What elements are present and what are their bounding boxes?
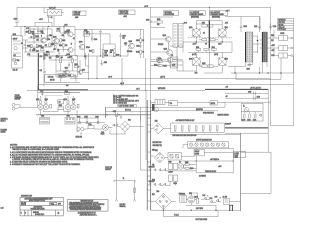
junction dot bias a [56,55,57,56]
svg-text:1K: 1K [142,40,144,42]
jack MUTE [76,127,84,138]
svg-text:R150: R150 [157,19,161,21]
connector strip pins row [188,141,229,148]
diode D153 [163,169,165,171]
svg-text:4K7: 4K7 [45,45,48,47]
capacitor C144 [253,114,257,122]
label box POWER AMP MODULE [73,11,87,19]
resistor R123 [57,29,60,32]
label box LF OUTPUT LOADING NETWK [189,11,205,19]
wire mid-stage bottom [75,30,141,59]
svg-text:47u: 47u [33,48,35,50]
svg-text:+OUT: +OUT [271,45,275,47]
svg-text:(PILOT LT): (PILOT LT) [105,167,112,169]
resistor R186 [185,167,193,170]
transistor Q124 [154,57,162,67]
terminal block TS1 [279,36,293,41]
svg-text:C1: C1 [51,17,53,19]
output transistor Q134 TO-3 [189,52,200,71]
jack J102 [12,103,20,110]
junction dot fe e [47,51,48,52]
transistor Q112 TO-3 [36,99,43,110]
svg-text:K2: K2 [179,161,181,163]
title block name [31,206,46,211]
svg-text:H.F. OUTPUT: H.F. OUTPUT [211,12,220,14]
svg-text:0.1: 0.1 [203,33,205,35]
resistor R162 [204,48,209,50]
resistor R106 [27,44,32,47]
svg-text:10K: 10K [157,24,159,26]
diode D104 [95,116,99,123]
svg-text:15,000uF: 15,000uF [225,124,231,126]
resistor R153 [208,24,213,27]
capacitor C120 [146,19,152,22]
output transistor Q136 TO-3 [218,52,228,71]
svg-text:D150-153: D150-153 [149,166,155,168]
wire top +85V supply rail [17,7,294,125]
resistor R133 [89,50,94,53]
svg-text:C160: C160 [168,161,172,163]
transistor Q106 [67,47,73,56]
svg-text:VOL: VOL [17,60,20,62]
svg-text:OUTPUT MODULE PINS: OUTPUT MODULE PINS [196,139,212,141]
resistor R167 [208,65,213,68]
wire BR1 leads [151,128,171,130]
bold rail +85 right [205,88,268,90]
svg-text:C104: C104 [49,35,53,37]
svg-text:C100: C100 [14,19,18,21]
svg-text:C108: C108 [94,39,98,41]
output heatsink bar HF dark [263,32,268,62]
diode D151 [154,169,156,171]
wire J100 to amp [22,27,28,49]
svg-text:D10: D10 [62,75,65,77]
wire harness drop x146 [145,90,147,160]
svg-text:B: B [41,36,42,38]
svg-text:Q136: Q136 [225,58,229,60]
junction dot out c [222,41,223,42]
svg-text:1.8K: 1.8K [68,57,71,59]
transistor Q104 [67,30,73,37]
svg-text:C120: C120 [146,19,150,21]
resistor R150 [157,19,162,23]
warning box body [69,202,105,211]
resistor R132 [136,50,141,54]
svg-text:MODULE: MODULE [74,14,80,16]
wire +80V rail (long) [70,77,271,79]
wire R100 drop [44,7,54,26]
svg-text:R160: R160 [196,47,199,49]
junction dot bottom rail a [163,210,164,211]
wire rail y98.2 [225,97,268,99]
svg-text:MUTE LINE: MUTE LINE [158,88,165,90]
wire mid-stage net [85,30,144,59]
wire output bars bottom wrap [228,62,267,73]
resistor R166 [202,63,207,67]
svg-text:R126: R126 [110,50,114,52]
svg-text:RED: RED [271,35,274,37]
resistor R102 [29,30,35,33]
svg-text:DRIVE: DRIVE [195,153,199,155]
wire remote line y110.8 [151,110,218,112]
svg-text:C116: C116 [40,91,43,93]
svg-text:4.7K: 4.7K [26,28,29,30]
diode LED DS2 [210,198,213,203]
svg-text:C138: C138 [257,97,261,99]
junction dot top rail bus [209,7,210,8]
resistor R143 [77,104,79,108]
wire K3 links [151,61,183,71]
title block bottom row [21,212,60,216]
note line 4 [10,156,99,161]
capacitor C109 [21,43,26,46]
svg-text:BR2: BR2 [155,150,158,152]
wire harness drop x140.5 [141,107,148,170]
svg-text:150: 150 [110,52,112,54]
junction dot fe d [37,46,38,47]
bridge rectifier BR3 main [155,191,171,209]
svg-text:Q114: Q114 [64,99,67,101]
svg-text:R122: R122 [105,51,109,53]
junction dot bias b [65,55,66,56]
wire output emitters bottom [177,66,222,73]
junction dot output node [257,40,259,42]
svg-text:C142: C142 [247,119,251,121]
svg-text:Q104: Q104 [67,30,71,32]
rectifier diamond BR2 [154,150,165,163]
diode D152 [159,169,161,171]
transistor Q117 [78,70,85,75]
fuse F100 box [88,124,94,129]
resistor R122 [102,50,108,54]
wire diode tops [80,115,98,118]
resistor R192 inline [134,188,136,192]
wire PSU mid2 [168,161,233,173]
label pilot [105,167,112,171]
svg-text:SWITCH: SWITCH [15,99,21,101]
svg-text:R172: R172 [158,59,161,61]
resistor R120 [84,30,91,36]
svg-text:GRN RED YEL: GRN RED YEL [153,145,163,147]
resistor R124 [102,54,108,57]
wire TO3 row rail [40,91,70,93]
ribbon connector board edge [173,23,183,47]
svg-text:R152: R152 [202,23,205,25]
wire AC cluster links [216,201,240,211]
svg-text:C163: C163 [173,183,177,185]
svg-text:22K: 22K [86,32,88,34]
svg-text:COM: COM [271,55,274,57]
terminal block TS3 [279,53,293,58]
svg-text:0 V: 0 V [205,43,207,45]
label box relay drive [194,149,204,156]
wire TO3 emitters [41,96,74,115]
wire right verticals to y73 [235,56,294,74]
output heatsink bar LF hatched [246,32,253,62]
svg-text:390: 390 [105,53,107,55]
connector P104 [65,116,75,124]
transistor Q120 [163,35,172,42]
svg-text:Q130: Q130 [189,27,193,29]
svg-text:5. K DENOTES RELAY CONTACTS S: 5. K DENOTES RELAY CONTACTS SHOWN IN DE-… [10,161,68,164]
svg-text:P102: P102 [41,116,44,118]
wire driver internal [151,39,183,67]
notes table box top-right [278,19,294,32]
svg-text:R166: R166 [202,63,205,65]
resistor R138 [74,64,78,68]
wire diode row 2 [147,181,176,185]
wire rail y133.2 right [225,132,268,134]
transistor Q114 TO-3 [64,99,71,110]
junction dot PSU a [196,160,197,161]
svg-text:+85 V (+42.5 V): +85 V (+42.5 V) [250,87,261,89]
capacitor C100 input [14,7,19,26]
svg-text:YEL: YEL [152,165,155,167]
svg-text:R130: R130 [136,40,140,42]
transistor Q115 TO-3 [71,99,76,110]
wire pilot drop x116.5 [116,115,118,181]
relay box K3 [171,55,178,68]
regulator box VR1 [168,153,181,160]
transformer T1 primary bar [114,178,135,182]
svg-text:Q117: Q117 [82,70,85,72]
resistor R142 emitter [58,105,64,109]
resistor R128 [113,53,119,56]
svg-text:+83 V: +83 V [39,19,43,21]
wire bias right column [83,53,89,80]
resistor R118 [59,44,64,47]
svg-text:9-14: 9-14 [51,203,54,205]
svg-text:-82 V: -82 V [136,89,140,91]
resistor R116 [60,39,66,42]
junction dot row y73 a [234,72,235,73]
label pin rows right of bar [271,35,275,57]
svg-text:C20: C20 [40,56,43,58]
svg-text:C136: C136 [248,92,252,94]
svg-text:680: 680 [61,57,63,59]
svg-text:Q100: Q100 [47,39,51,41]
capacitor C163 [173,175,177,185]
svg-text:+OV REMOTE TURN-ON 12V: +OV REMOTE TURN-ON 12V [176,120,195,122]
capacitor C140 [242,114,246,122]
wire second stage links [55,27,75,57]
svg-text:2-14: 2-14 [1,208,4,210]
resistor R112 [41,47,44,50]
diode D155 [154,183,156,185]
jumper dashed link [45,94,63,96]
capacitor C136 on rail [248,92,255,96]
capacitor bank C153 [195,125,197,131]
wire cap bank bottom bus [171,134,241,136]
PSU box right small [210,101,217,105]
PSU left edge pin ticks [147,118,151,201]
wire front-end horizontals [24,29,60,56]
svg-text:47: 47 [71,44,73,46]
load box optional speaker [234,152,246,159]
resistor R172 [158,59,162,63]
junction dot PSU b [233,160,234,161]
svg-text:NOTES:: NOTES: [10,144,18,146]
lamp DS100 pilot [101,125,109,136]
svg-text:R140: R140 [65,91,69,93]
capacitor C134 [269,24,276,30]
svg-text:R142: R142 [59,105,63,107]
junction dot y115 a [106,114,107,115]
svg-text:OUT: OUT [195,72,198,74]
wire driver stage left vertical [150,7,152,100]
label box HF OUTPUT [210,11,228,19]
junction dot fe b [42,33,43,34]
wire rail y102 right [225,101,271,103]
svg-text:10: 10 [142,52,144,54]
svg-text:-84 V: -84 V [225,22,228,24]
wire protection internals [241,112,262,114]
diode LED DS3 [215,197,221,202]
svg-text:R106: R106 [27,45,31,47]
svg-text:VALUES IN OHMS. K = 1000 OHMS,: VALUES IN OHMS. K = 1000 OHMS, M = 1,000… [12,148,59,151]
wire output collectors top [196,21,222,25]
svg-text:T1: T1 [123,178,125,180]
potentiometer BIAS [58,71,65,77]
resistor R134 [56,57,61,63]
svg-text:C22: C22 [84,56,87,58]
svg-text:NO 2 = 47K: NO 2 = 47K [113,97,122,99]
wire right vertical x268 [267,89,269,133]
svg-text:47K: 47K [13,55,15,57]
transistor Q108 [79,42,85,50]
capacitor C170 across sense line [113,111,118,117]
resistor R174 [158,65,167,68]
junction dot rail c [63,26,64,27]
wire output row y52.4 [188,50,232,52]
svg-text:R112: R112 [41,47,44,49]
left margin note a [1,119,8,123]
wire output top feeds [241,17,259,33]
wire right row y79.5 [236,73,281,80]
capacitor C106 [29,48,36,52]
svg-text:TEST: TEST [234,157,238,159]
svg-text:D154-157: D154-157 [149,181,155,183]
wire mid-stage top rail [75,29,144,31]
protection circuit box right [241,104,263,122]
junction dot row y73 c [267,72,268,73]
svg-text:330: 330 [53,49,55,51]
PSU left edge double rail [147,100,151,210]
svg-text:R4: R4 [59,102,61,104]
svg-text:+1.5 V: +1.5 V [144,6,148,8]
junction dot bottom rail b [191,210,192,211]
regulator sub box [45,74,61,82]
relay K1 circle [243,105,249,112]
capacitor C138 on rail [254,96,261,100]
PSU box TG [169,101,178,106]
connector dark stub [152,104,155,111]
svg-text:NO 4 = DRIVER COLLECTOR +85 V: NO 4 = DRIVER COLLECTOR +85 V [113,101,140,103]
svg-text:BLK WHT VIO: BLK WHT VIO [153,142,163,144]
svg-text:Q112: Q112 [36,99,39,101]
svg-text:10K: 10K [32,33,34,35]
svg-text:NO 5 = MUTE LINE: NO 5 = MUTE LINE [113,102,127,104]
svg-text:120 V LINE CORD: 120 V LINE CORD [196,219,208,221]
wire loop y152 [241,133,269,152]
svg-text:Q120: Q120 [163,35,167,37]
svg-text:GND: GND [104,62,107,64]
svg-text:+85: +85 [225,87,228,89]
svg-text:RED: RED [152,149,155,151]
svg-text:R108: R108 [38,45,42,47]
svg-text:CROSSOVER: CROSSOVER [164,14,175,16]
resistor R155 [210,39,215,41]
svg-text:R138: R138 [74,64,78,66]
svg-text:C134: C134 [273,26,277,28]
wire speaker return loop [241,152,272,194]
warning box footer lines [78,212,97,217]
diode D132 [259,114,262,116]
label PSU wires left [153,142,163,147]
label 120VAC [120,203,127,208]
diode D150 [149,169,151,171]
wire jack to board [18,87,38,108]
svg-text:MUTE: MUTE [211,103,215,105]
diode D11 box [68,74,73,77]
svg-text:SEE SHT 2: SEE SHT 2 [1,119,8,121]
svg-text:-1.2: -1.2 [73,38,76,40]
capacitor C142 [247,114,251,122]
capacitor C116 [40,91,44,96]
svg-text:50/60 Hz: 50/60 Hz [120,206,126,208]
svg-text:Q126: Q126 [172,65,176,67]
transistor Q110 [128,41,134,49]
svg-text:NOTE 4: NOTE 4 [1,120,6,122]
svg-text:R104: R104 [35,36,39,38]
transistor Q126 [167,57,176,67]
svg-text:150: 150 [65,45,67,47]
transistor Q113 TO-3 [43,99,48,110]
diode D154 [149,183,151,185]
dashed separator line [188,37,232,39]
svg-text:R102: R102 [31,31,35,33]
ground symbol mid [100,60,107,66]
wire bias box links [44,56,80,87]
svg-text:5K6: 5K6 [62,35,65,37]
label fan thermal [15,94,22,101]
svg-text:K3: K3 [171,55,173,57]
label box DISPLAY BOARD [119,10,136,18]
svg-text:VBE 0.6V: VBE 0.6V [278,27,284,29]
svg-text:2. ALL CAPACITANCE VALUES ARE: 2. ALL CAPACITANCE VALUES ARE IN MICROFA… [10,151,92,154]
junction dot rail b [48,26,49,27]
svg-text:C112: C112 [136,45,139,47]
wire bus light continuation [208,48,210,68]
wire protect bus y114.8 [36,114,151,116]
svg-text:Q132: Q132 [225,27,229,29]
resistor R100 box top-left [44,8,64,16]
svg-text:+28 V: +28 V [218,166,222,168]
wire PSU interface row [151,102,225,104]
svg-text:Q134: Q134 [189,58,193,60]
diode D156 [159,183,161,185]
svg-text:CK RLB: CK RLB [21,204,26,206]
relay K2 circle [178,164,184,170]
resistor R130 [136,39,141,43]
svg-text:+(4.5 V): +(4.5 V) [160,76,165,78]
svg-text:Q116: Q116 [65,68,68,70]
capacitor C160 [168,161,172,169]
diode D157 [163,183,165,185]
wire output row y42 [183,40,232,42]
junction dot row y73 d [280,72,281,73]
feedback text block [113,95,140,105]
